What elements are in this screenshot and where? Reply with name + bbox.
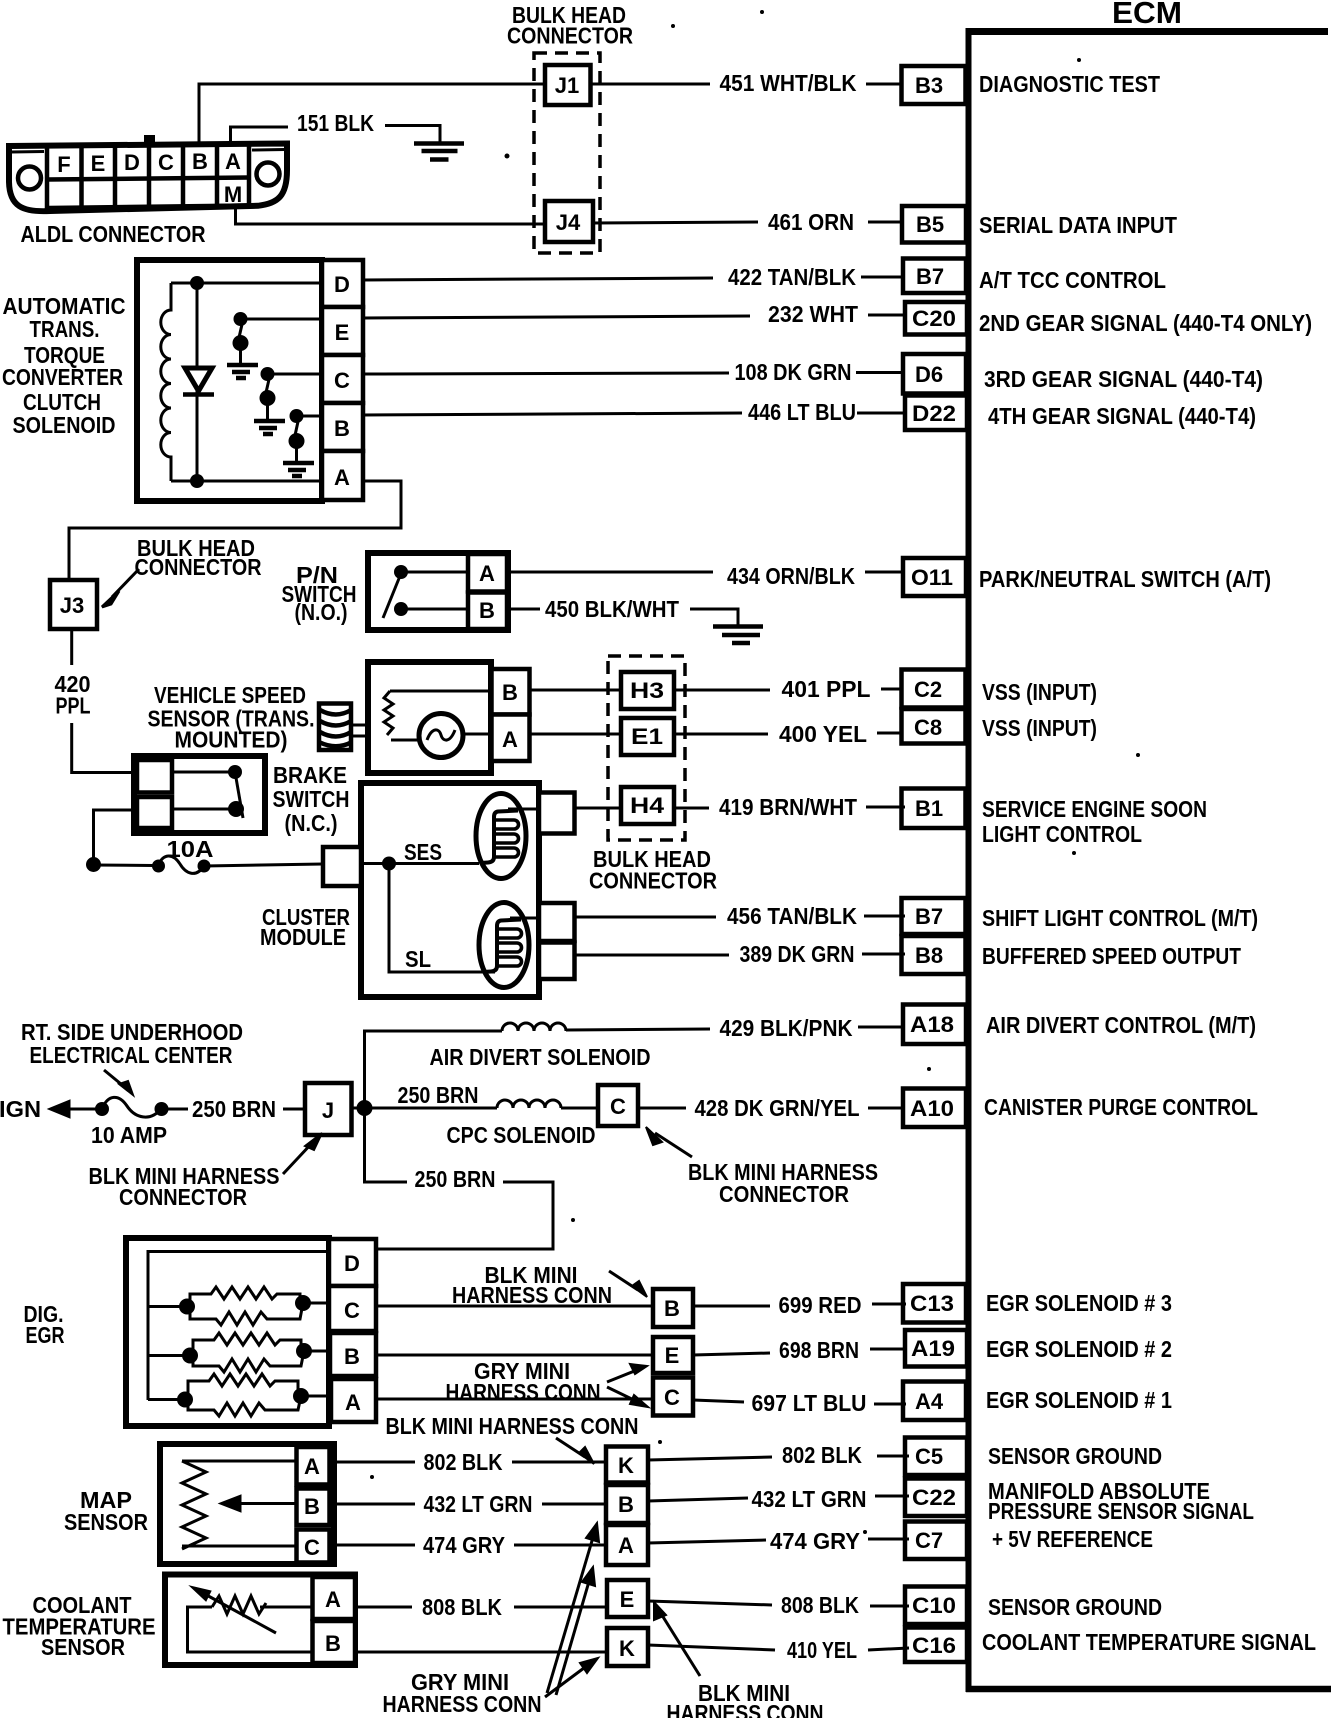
- svg-text:699 RED: 699 RED: [779, 1292, 862, 1318]
- svg-text:C22: C22: [912, 1485, 956, 1510]
- svg-text:3RD GEAR SIGNAL (440-T4): 3RD GEAR SIGNAL (440-T4): [984, 366, 1263, 392]
- node J output junction: [357, 1100, 373, 1116]
- ground (switch S1): [227, 365, 258, 378]
- svg-text:B8: B8: [915, 943, 943, 968]
- svg-text:D: D: [334, 272, 350, 297]
- ECM pin C5: [905, 1438, 967, 1476]
- svg-text:J3: J3: [60, 593, 84, 618]
- svg-text:808 BLK: 808 BLK: [422, 1594, 502, 1620]
- brake switch pin top: [137, 760, 172, 793]
- svg-text:CONVERTER: CONVERTER: [2, 364, 123, 390]
- svg-text:SENSOR GROUND: SENSOR GROUND: [988, 1594, 1162, 1620]
- EGR resistor pair 3: [177, 1374, 331, 1416]
- wire 420 PPL to brake switch: [72, 723, 137, 773]
- svg-text:429 BLK/PNK: 429 BLK/PNK: [720, 1015, 853, 1041]
- coolant sensor box: [165, 1575, 355, 1666]
- wire 400 YEL: [675, 721, 903, 747]
- svg-text:B: B: [334, 416, 350, 441]
- svg-text:PRESSURE SENSOR SIGNAL: PRESSURE SENSOR SIGNAL: [988, 1498, 1254, 1524]
- node SES junction: [382, 857, 396, 871]
- wire VSS B to H3: [530, 689, 622, 692]
- BULK HEAD CONNECTOR label (top): [507, 2, 633, 49]
- DIG. EGR label: [24, 1301, 65, 1348]
- svg-text:O11: O11: [911, 565, 953, 590]
- CPC solenoid coil: [497, 1100, 561, 1108]
- wire J to junction: [352, 1107, 365, 1110]
- ECM pin C2: [902, 670, 966, 708]
- wire coil bottom to generator: [391, 739, 419, 742]
- svg-text:CONNECTOR: CONNECTOR: [135, 554, 262, 580]
- svg-text:802 BLK: 802 BLK: [782, 1442, 862, 1468]
- svg-text:+ 5V REFERENCE: + 5V REFERENCE: [992, 1526, 1153, 1552]
- ECM pin O11: [903, 558, 966, 596]
- svg-text:HARNESS CONN: HARNESS CONN: [383, 1691, 542, 1717]
- wire brake switch to fuse junction: [94, 810, 138, 864]
- svg-text:SENSOR: SENSOR: [41, 1634, 125, 1660]
- bulk head dashed box (top): [534, 53, 600, 253]
- svg-text:C: C: [158, 150, 174, 175]
- TCC coil winding: [161, 283, 171, 481]
- ECM pin B7 (TCC): [903, 259, 966, 294]
- wire junction down to DIG EGR pin D: [365, 1108, 408, 1182]
- svg-text:F: F: [57, 152, 70, 177]
- VSS pin B: [492, 669, 530, 715]
- wire coil bottom to pin A: [171, 480, 322, 483]
- svg-text:B5: B5: [916, 212, 944, 237]
- svg-text:LIGHT CONTROL: LIGHT CONTROL: [982, 821, 1142, 847]
- EGR resistor pair 1: [179, 1287, 329, 1325]
- connector E1: [621, 718, 674, 755]
- svg-text:389 DK GRN: 389 DK GRN: [740, 941, 855, 967]
- MAP wiper arrow: [219, 1495, 297, 1512]
- CLUSTER MODULE label: [260, 904, 350, 950]
- svg-text:AIR DIVERT CONTROL (M/T): AIR DIVERT CONTROL (M/T): [986, 1012, 1256, 1038]
- arrow to J: [283, 1133, 322, 1174]
- svg-text:HARNESS CONN: HARNESS CONN: [667, 1700, 824, 1718]
- svg-text:C: C: [664, 1385, 680, 1410]
- arrow bottom right to mini E: [654, 1602, 700, 1676]
- svg-text:B7: B7: [915, 904, 943, 929]
- svg-text:B: B: [192, 149, 208, 174]
- svg-text:ALDL CONNECTOR: ALDL CONNECTOR: [21, 221, 206, 247]
- BLK MINI HARNESS CONN label (B): [452, 1262, 612, 1308]
- wire 450 BLK/WHT: [507, 596, 738, 626]
- svg-text:IGN: IGN: [0, 1096, 41, 1122]
- ground (450 BLK/WHT): [713, 627, 763, 644]
- svg-text:SERIAL DATA INPUT: SERIAL DATA INPUT: [979, 212, 1177, 238]
- COOLANT TEMPERATURE SENSOR label: [3, 1592, 156, 1660]
- svg-text:M: M: [224, 182, 242, 207]
- svg-text:250 BRN: 250 BRN: [192, 1096, 276, 1122]
- svg-text:CONNECTOR: CONNECTOR: [119, 1184, 247, 1210]
- RT. SIDE UNDERHOOD ELECTRICAL CENTER label: [21, 1019, 243, 1068]
- MAP SENSOR label: [64, 1487, 148, 1535]
- arrow to J3: [102, 569, 139, 607]
- brake switch pin bottom: [137, 797, 172, 828]
- svg-text:A19: A19: [911, 1336, 955, 1361]
- connector B (mini): [653, 1289, 693, 1327]
- svg-text:A: A: [334, 465, 350, 490]
- svg-text:B7: B7: [916, 264, 944, 289]
- svg-text:H3: H3: [630, 678, 664, 703]
- BULK HEAD CONNECTOR label (J3): [135, 535, 262, 580]
- svg-text:SERVICE ENGINE SOON: SERVICE ENGINE SOON: [982, 796, 1207, 822]
- ECM pin C22: [905, 1479, 967, 1517]
- svg-text:CPC SOLENOID: CPC SOLENOID: [447, 1122, 596, 1148]
- svg-text:ELECTRICAL CENTER: ELECTRICAL CENTER: [30, 1042, 233, 1068]
- ground (151 BLK): [414, 144, 464, 160]
- wire 410 YEL right: [648, 1637, 909, 1663]
- BLK MINI HARNESS CONN label (bottom right): [667, 1680, 824, 1718]
- svg-text:J4: J4: [556, 210, 581, 235]
- svg-text:C20: C20: [912, 306, 956, 331]
- svg-text:BRAKE: BRAKE: [273, 762, 347, 788]
- arrow to fuse 10 AMP: [104, 1070, 133, 1095]
- ECM pin C7: [905, 1522, 967, 1560]
- VSS pin A: [492, 715, 530, 762]
- wire 808 BLK to E: [514, 1606, 607, 1609]
- ECM pin C20: [905, 302, 967, 335]
- connector J: [305, 1083, 352, 1135]
- VSS pickup coil: [384, 691, 393, 735]
- cluster top-right pin box: [539, 793, 575, 834]
- wire 389 DK GRN: [575, 941, 906, 967]
- wire coolant B to K2: [355, 1651, 607, 1654]
- wire 432 LT GRN to mini B: [542, 1503, 606, 1506]
- svg-text:VEHICLE SPEED: VEHICLE SPEED: [154, 682, 306, 708]
- wire MAP B to mini B: [330, 1503, 416, 1506]
- BRAKE SWITCH (N.C.) label: [273, 762, 350, 836]
- wire 429 BLK/PNK: [566, 1015, 905, 1041]
- svg-text:422 TAN/BLK: 422 TAN/BLK: [728, 264, 856, 290]
- coolant pin A: [313, 1577, 356, 1619]
- svg-text:808 BLK: 808 BLK: [781, 1592, 859, 1618]
- svg-text:C: C: [344, 1298, 360, 1323]
- ECM pin C13: [903, 1284, 966, 1323]
- TCC pin E: [322, 307, 363, 355]
- svg-text:VSS (INPUT): VSS (INPUT): [982, 715, 1097, 741]
- svg-text:J: J: [322, 1098, 334, 1123]
- svg-text:B3: B3: [915, 73, 943, 98]
- wire fuse to 250 BRN label: [168, 1108, 188, 1111]
- arrow to C connector: [607, 1387, 648, 1407]
- svg-text:232 WHT: 232 WHT: [768, 301, 858, 327]
- wire 802 BLK right: [648, 1442, 909, 1468]
- svg-text:C5: C5: [915, 1444, 943, 1469]
- wire 697 LT BLU: [693, 1390, 906, 1416]
- svg-text:C: C: [610, 1094, 626, 1119]
- SL lamp: [479, 903, 529, 988]
- BULK HEAD CONNECTOR label (middle): [589, 846, 717, 894]
- svg-text:EGR SOLENOID # 2: EGR SOLENOID # 2: [986, 1336, 1172, 1362]
- svg-text:D22: D22: [912, 401, 956, 426]
- wire generator to pin A: [463, 733, 492, 736]
- svg-text:DIAGNOSTIC TEST: DIAGNOSTIC TEST: [979, 71, 1160, 97]
- svg-text:AIR DIVERT SOLENOID: AIR DIVERT SOLENOID: [430, 1044, 651, 1070]
- node bottom junction: [190, 474, 204, 488]
- arrow IGN: [48, 1100, 96, 1118]
- fuse 10 AMP: [95, 1097, 169, 1117]
- wire 151 BLK to ground: [385, 126, 440, 144]
- cluster left pin box: [323, 847, 361, 886]
- svg-text:4TH GEAR SIGNAL (440-T4): 4TH GEAR SIGNAL (440-T4): [988, 403, 1256, 429]
- wire 108 DK GRN: [363, 359, 903, 385]
- svg-text:A: A: [618, 1533, 634, 1558]
- svg-text:H4: H4: [630, 793, 665, 818]
- node fuse junction: [86, 857, 101, 872]
- svg-text:MOUNTED): MOUNTED): [175, 727, 288, 753]
- 420 PPL label: [55, 671, 91, 719]
- wire MAP A to K: [330, 1461, 416, 1464]
- arrow bottom to mini B: [547, 1523, 599, 1693]
- svg-text:400 YEL: 400 YEL: [779, 721, 867, 747]
- svg-text:J1: J1: [555, 73, 579, 98]
- wire CPC coil to C: [561, 1107, 598, 1110]
- svg-text:PARK/NEUTRAL SWITCH (A/T): PARK/NEUTRAL SWITCH (A/T): [979, 566, 1271, 592]
- svg-text:C2: C2: [914, 677, 942, 702]
- svg-text:SENSOR GROUND: SENSOR GROUND: [988, 1443, 1162, 1469]
- connector C (mini): [653, 1378, 693, 1416]
- svg-text:C16: C16: [912, 1633, 956, 1658]
- svg-text:B: B: [344, 1344, 360, 1369]
- svg-text:HARNESS CONN: HARNESS CONN: [446, 1379, 601, 1405]
- ECM pin C16: [905, 1628, 967, 1663]
- wire 802 BLK to K: [512, 1461, 606, 1464]
- arrow bottom to mini A: [556, 1567, 595, 1695]
- BLK MINI HARNESS CONNECTOR label (J): [89, 1163, 280, 1210]
- svg-text:A/T TCC CONTROL: A/T TCC CONTROL: [979, 267, 1166, 293]
- svg-text:E1: E1: [631, 724, 663, 749]
- wire SES junction down to SL lamp: [389, 864, 495, 973]
- svg-text:E: E: [665, 1343, 680, 1368]
- wire coil top to pin D: [171, 282, 322, 285]
- svg-text:A: A: [502, 727, 518, 752]
- svg-text:BLK MINI HARNESS CONN: BLK MINI HARNESS CONN: [386, 1413, 639, 1439]
- wire 461 ORN: [593, 209, 903, 235]
- P/N SWITCH (N.O.) label: [282, 562, 357, 625]
- svg-text:CONNECTOR: CONNECTOR: [589, 868, 717, 894]
- AUTOMATIC TRANS. TORQUE CONVERTER CLUTCH SOLENOID label: [2, 293, 126, 438]
- P/N pin A: [468, 554, 507, 592]
- switch S2 (pin C): [260, 367, 323, 420]
- svg-text:EGR SOLENOID # 1: EGR SOLENOID # 1: [986, 1387, 1172, 1413]
- svg-text:410 YEL: 410 YEL: [787, 1637, 857, 1663]
- ECM pin B7 (shift light): [902, 898, 966, 934]
- wire 432 LT GRN right: [648, 1486, 909, 1512]
- P/N switch contacts: [383, 565, 468, 618]
- svg-text:2ND GEAR SIGNAL (440-T4 ONLY): 2ND GEAR SIGNAL (440-T4 ONLY): [979, 310, 1312, 336]
- wire 434 ORN/BLK: [507, 563, 905, 589]
- svg-text:EGR: EGR: [26, 1322, 65, 1348]
- arrow to B connector: [609, 1271, 647, 1297]
- wire 474 GRY right: [648, 1528, 909, 1554]
- svg-text:B: B: [479, 598, 495, 623]
- svg-text:250 BRN: 250 BRN: [415, 1166, 496, 1192]
- wire left pin to SES junction: [361, 862, 389, 865]
- svg-text:SENSOR: SENSOR: [64, 1509, 148, 1535]
- connector C: [598, 1085, 638, 1126]
- ECM pin A4: [903, 1382, 966, 1421]
- svg-text:A: A: [325, 1587, 341, 1612]
- svg-text:10 AMP: 10 AMP: [91, 1122, 167, 1148]
- TCC pin A: [322, 451, 363, 500]
- ECM function labels: [979, 71, 1316, 1655]
- wire TCC pin A to J3: [69, 481, 401, 580]
- svg-text:151 BLK: 151 BLK: [297, 110, 374, 136]
- TCC pin D: [322, 260, 363, 307]
- wire 422 TAN/BLK: [363, 264, 904, 290]
- svg-text:802 BLK: 802 BLK: [424, 1449, 503, 1475]
- svg-text:474 GRY: 474 GRY: [770, 1528, 860, 1554]
- ground (switch S2): [254, 421, 285, 434]
- connector K (mini): [606, 1447, 648, 1483]
- cluster module box: [361, 783, 539, 997]
- connector J3: [50, 580, 97, 629]
- svg-text:250 BRN: 250 BRN: [398, 1082, 479, 1108]
- svg-text:COOLANT TEMPERATURE SIGNAL: COOLANT TEMPERATURE SIGNAL: [982, 1629, 1316, 1655]
- wire 474 GRY to mini A: [514, 1544, 606, 1547]
- svg-text:PPL: PPL: [56, 693, 91, 719]
- wire coil top to pin B: [390, 690, 492, 693]
- svg-text:428 DK GRN/YEL: 428 DK GRN/YEL: [695, 1095, 860, 1121]
- VEHICLE SPEED SENSOR label: [148, 682, 315, 753]
- svg-text:474 GRY: 474 GRY: [423, 1532, 505, 1558]
- ECM pin C8: [902, 709, 966, 744]
- brake switch box: [134, 756, 265, 833]
- svg-text:VSS (INPUT): VSS (INPUT): [982, 679, 1097, 705]
- wire 808 BLK right: [648, 1592, 909, 1618]
- wire junction to fuse: [94, 864, 154, 868]
- wire 699 RED: [693, 1292, 906, 1318]
- svg-text:CANISTER PURGE CONTROL: CANISTER PURGE CONTROL: [984, 1094, 1258, 1120]
- svg-text:SWITCH: SWITCH: [273, 786, 350, 812]
- VSS reluctor wheel: [319, 704, 367, 751]
- svg-text:C10: C10: [912, 1593, 956, 1618]
- svg-text:446 LT BLU: 446 LT BLU: [748, 399, 856, 425]
- svg-text:434 ORN/BLK: 434 ORN/BLK: [727, 563, 855, 589]
- wire 401 PPL: [675, 676, 903, 702]
- arrow bottom to mini K2: [545, 1658, 598, 1697]
- wire 419 BRN/WHT: [675, 794, 905, 820]
- connector E (mini): [653, 1337, 693, 1373]
- svg-text:A: A: [345, 1390, 361, 1415]
- ECM box outline: [966, 28, 1331, 1692]
- ALDL mount hole right: [257, 163, 280, 186]
- wire ALDL B to J1: [199, 84, 545, 146]
- svg-text:419 BRN/WHT: 419 BRN/WHT: [719, 794, 857, 820]
- coolant thermistor arrow: [190, 1586, 276, 1633]
- ECM pin B8: [902, 936, 966, 974]
- svg-text:B: B: [502, 680, 518, 705]
- svg-text:456 TAN/BLK: 456 TAN/BLK: [727, 903, 857, 929]
- arrow to E connector: [607, 1364, 647, 1382]
- MAP sensor box: [160, 1444, 334, 1564]
- wire 232 WHT: [363, 301, 905, 327]
- EGR pin B: [330, 1333, 376, 1376]
- ALDL connector body: [9, 135, 287, 211]
- wire 446 LT BLU: [363, 399, 905, 425]
- wire SES junction to lamp: [389, 862, 479, 865]
- VSS generator circle: [419, 714, 463, 758]
- wire ALDL M to J4: [236, 209, 546, 224]
- switch S1 (pin E): [233, 312, 323, 364]
- BLK MINI HARNESS CONNECTOR label (C): [688, 1159, 878, 1207]
- wire 428 DK GRN/YEL: [638, 1095, 905, 1121]
- ECM pin B3: [902, 66, 966, 104]
- node top junction: [190, 276, 204, 290]
- EGR inner bus: [148, 1252, 329, 1401]
- P/N switch box: [368, 553, 508, 630]
- air divert solenoid coil: [502, 1023, 566, 1031]
- svg-text:A10: A10: [910, 1096, 954, 1121]
- arrow to K connector: [556, 1438, 594, 1464]
- ALDL pin grid: [47, 144, 250, 210]
- cluster bottom-right pin box: [539, 943, 575, 980]
- TCC pin C: [322, 355, 363, 403]
- svg-text:A4: A4: [915, 1389, 944, 1414]
- MAP pin C: [297, 1530, 330, 1563]
- svg-text:(N.C.): (N.C.): [285, 810, 338, 836]
- ECM pin A10: [903, 1089, 966, 1128]
- wire 456 TAN/BLK: [575, 903, 906, 929]
- svg-text:A: A: [304, 1454, 320, 1479]
- svg-text:B: B: [664, 1296, 680, 1321]
- svg-text:CONNECTOR: CONNECTOR: [719, 1181, 849, 1207]
- svg-text:698 BRN: 698 BRN: [779, 1337, 859, 1363]
- wire J3 down (420 PPL): [70, 629, 73, 665]
- wire 451 WHT/BLK: [590, 70, 902, 96]
- wire SES lamp to top-right pin: [508, 808, 539, 811]
- EGR pin D: [329, 1239, 376, 1286]
- wire junction up to air divert solenoid: [365, 1031, 503, 1108]
- arrow to C: [646, 1127, 692, 1157]
- svg-text:C: C: [334, 368, 350, 393]
- svg-text:SL: SL: [405, 946, 431, 972]
- svg-text:CONNECTOR: CONNECTOR: [507, 23, 633, 49]
- connector J1: [545, 65, 591, 105]
- ECM pin B1: [902, 789, 966, 829]
- ground (switch S3): [283, 463, 314, 476]
- svg-text:MODULE: MODULE: [260, 924, 346, 950]
- scan speckles: [370, 10, 1140, 1534]
- svg-text:C: C: [304, 1535, 320, 1560]
- wire 250 BRN to EGR pin D: [377, 1182, 553, 1249]
- ECM pin B5: [902, 206, 966, 243]
- ECM pin C10: [905, 1587, 967, 1625]
- connector K2 (mini): [607, 1628, 648, 1666]
- wire EGR C to mini B: [376, 1305, 653, 1308]
- switch S3 (pin B): [289, 409, 323, 462]
- svg-text:432 LT GRN: 432 LT GRN: [752, 1486, 867, 1512]
- connector H3: [621, 672, 674, 709]
- svg-text:B: B: [325, 1631, 341, 1656]
- wire EGR A to mini C: [376, 1398, 653, 1401]
- svg-text:B: B: [304, 1494, 320, 1519]
- svg-text:SOLENOID: SOLENOID: [13, 412, 116, 438]
- svg-text:451 WHT/BLK: 451 WHT/BLK: [720, 70, 857, 96]
- ECM pin A19: [905, 1330, 967, 1367]
- wire top-right pin to H4: [575, 807, 622, 810]
- wire MAP C to mini A: [330, 1544, 416, 1547]
- wire VSS A to E1: [530, 733, 622, 736]
- svg-text:HARNESS CONN: HARNESS CONN: [452, 1282, 612, 1308]
- svg-text:450 BLK/WHT: 450 BLK/WHT: [545, 596, 679, 622]
- TCC solenoid box: [137, 260, 322, 501]
- ECM pin D22: [905, 396, 967, 431]
- SES lamp: [476, 794, 526, 879]
- svg-text:K: K: [618, 1453, 634, 1478]
- wire SL lamp to mid-right pin: [510, 917, 539, 920]
